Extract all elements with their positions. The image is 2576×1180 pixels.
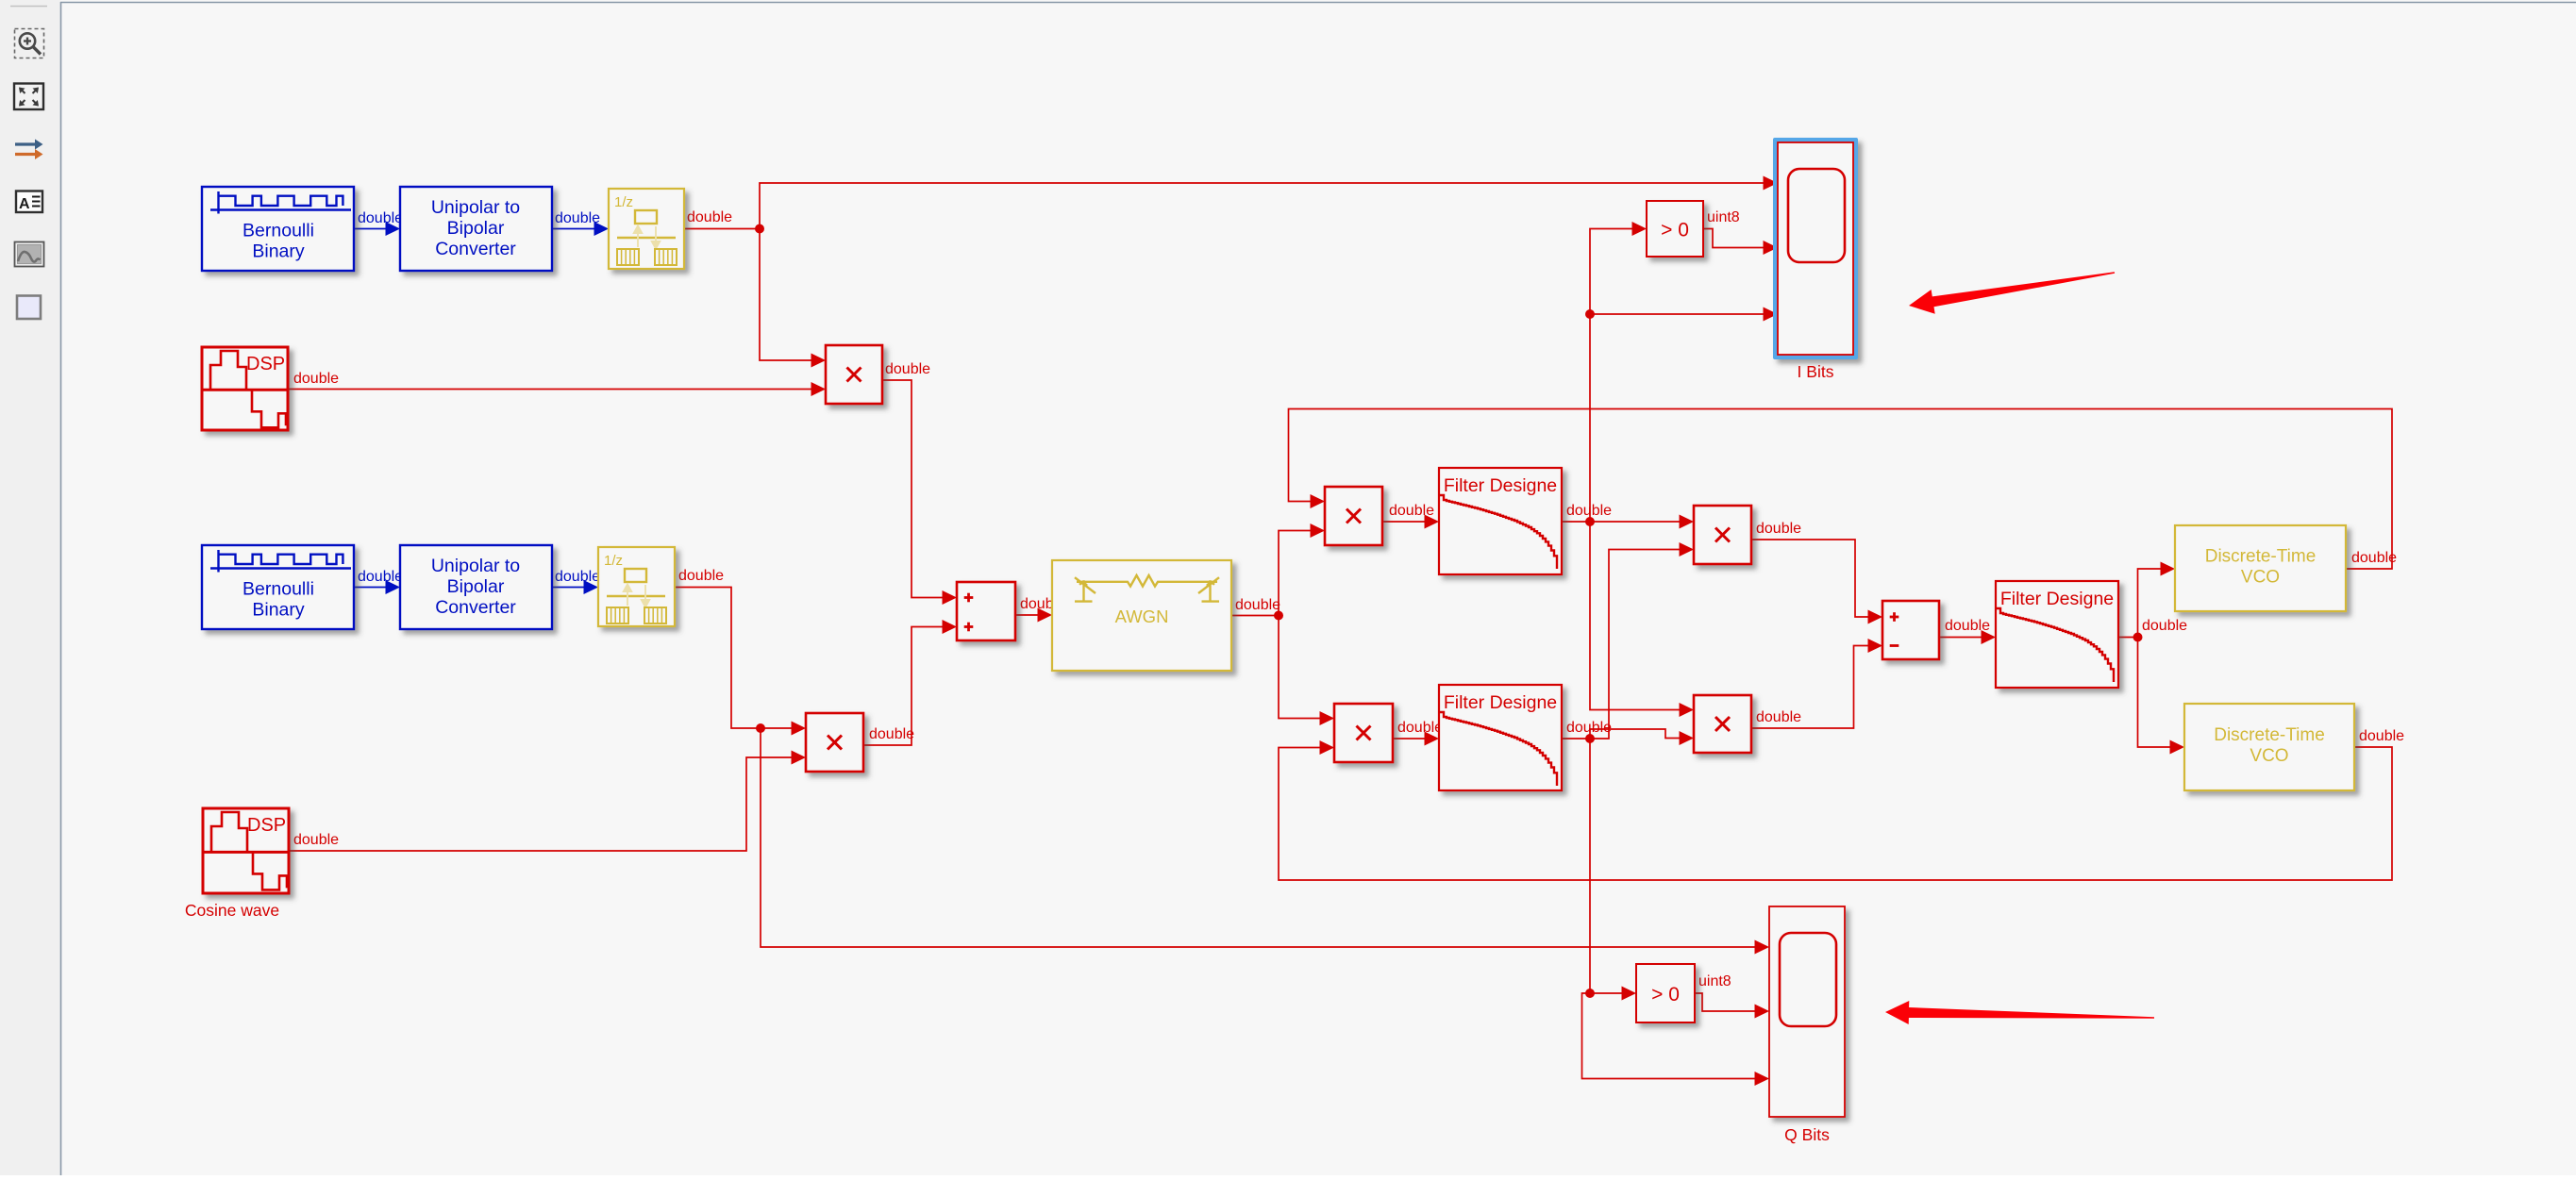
block: Unit Delay 1 (1/z) [609,189,684,269]
svg-text:Filter Designe: Filter Designe [1444,692,1557,713]
block: Product 5 (multiplier) [1694,506,1751,564]
svg-text:> 0: > 0 [1651,984,1680,1005]
svg-text:double: double [1756,521,1801,537]
svg-text:DSP: DSP [246,354,285,374]
svg-text:double: double [358,569,403,585]
svg-text:Binary: Binary [252,241,305,262]
svg-text:Discrete-Time: Discrete-Time [2205,547,2317,567]
wire: Unipolar converter 2 to Unit Delay 2 [552,587,585,589]
svg-text:double: double [358,210,403,226]
block: DSP Sine (DSP sine source) [202,347,288,430]
svg-text:Cosine wave: Cosine wave [185,901,279,920]
toolbar icon: fit to view [14,84,43,110]
block: Filter Designer 2 (lowpass) [1439,685,1562,790]
svg-text:Q Bits: Q Bits [1784,1125,1830,1144]
wire: Product 3 output to Filter Designer 1 [1382,521,1426,523]
svg-text:Filter Designe: Filter Designe [1444,475,1557,496]
wire: Bernoulli Binary 2 to Unipolar converter 2 [355,587,387,589]
svg-text:1/z: 1/z [604,553,623,569]
svg-text:double: double [1945,618,1990,634]
wire: Filter Designer 3 output to junction [2118,637,2138,639]
block: Product 2 (multiplier) [806,713,863,772]
block: Unipolar to Bipolar Converter 1 [400,187,552,271]
svg-text:Bipolar: Bipolar [447,576,505,597]
wire: junction down to Product 4 input 1 [1279,616,1321,719]
wire: Cosine wave source to Product 2 input 2 [289,757,793,851]
svg-text:VCO: VCO [2250,746,2288,766]
svg-text:uint8: uint8 [1698,973,1731,989]
wire: I-branch vertical down to Product 6 input 1 [1590,522,1681,710]
svg-text:DSP: DSP [247,815,286,836]
svg-text:double: double [1397,720,1443,736]
block: Bernoulli Binary generator 1 [202,187,354,271]
block: Product 6 (multiplier) [1694,695,1751,753]
svg-text:double: double [1566,720,1612,736]
block: Discrete-Time VCO 2 [2184,704,2354,790]
node: Unit Delay 2 output junction [756,723,765,733]
node: AWGN output junction [1274,611,1283,621]
node: Filter 2 output junction [1585,734,1595,743]
svg-text:Bernoulli: Bernoulli [243,579,314,600]
svg-text:uint8: uint8 [1707,209,1740,225]
annotation: red arrow pointing at I Bits scope [1909,272,2115,313]
toolbar icon: annotation A [16,191,42,213]
svg-text:double: double [2142,618,2187,634]
block: AWGN Channel [1052,560,1231,671]
wire: Add block output to AWGN channel [1015,614,1039,616]
svg-text:double: double [1566,503,1612,519]
wire: junction to Product 5 input 2 [1590,550,1681,740]
wire: junction down to comparator 2 [1590,739,1623,993]
wire: Unit Delay 1 output to junction [684,228,760,230]
toolbar icon: image [15,242,44,267]
node: Unit Delay 1 output junction [755,224,764,234]
wire: Product 4 output to Filter Designer 2 [1393,738,1426,740]
svg-text:double: double [1389,503,1434,519]
wire: junction down to Discrete-Time VCO 2 [2138,638,2172,748]
block: Unipolar to Bipolar Converter 2 [400,545,552,629]
svg-text:Converter: Converter [435,597,516,618]
block: Cosine wave (DSP sine source) [203,808,289,893]
wire: Product 1 output to Add block input 1 [882,380,944,598]
svg-text:Converter: Converter [435,239,516,259]
svg-text:double: double [1756,709,1801,725]
wire: AWGN output to junction [1231,615,1279,617]
block: Q Bits scope [1769,906,1845,1117]
svg-text:Filter Designe: Filter Designe [2000,589,2114,609]
block: Sum 2 (+ -) [1882,601,1939,659]
wire: branch to Q Bits scope input 3 [1582,993,1757,1079]
svg-text:double: double [293,371,339,387]
svg-text:1/z: 1/z [614,194,633,210]
block: Unit Delay 2 (1/z) [598,547,675,626]
svg-text:double: double [555,210,600,226]
svg-text:Unipolar to: Unipolar to [431,556,520,576]
svg-text:double: double [869,726,914,742]
block: Compare To Zero 2 [1636,964,1695,1022]
block: Product 1 (multiplier) [826,345,882,404]
wire: Filter Designer 1 output to Product 5 input 1 [1562,521,1681,523]
node: I decision branch [1585,309,1595,319]
wire: junction up to I Bits scope input 1 [760,183,1765,229]
block: Product 4 (multiplier) [1334,704,1393,762]
wire: Add-Sub output to Filter Designer 3 [1939,637,1982,639]
svg-text:double: double [555,569,600,585]
svg-text:double: double [1235,597,1280,613]
block: Filter Designer 3 (lowpass) [1996,581,2118,688]
svg-text:VCO: VCO [2241,568,2280,588]
node: Filter 1 output junction [1585,517,1595,526]
wire: junction to Product 6 input 2 [1590,729,1681,739]
svg-text:double: double [2359,728,2404,744]
block: Filter Designer 1 (lowpass) [1439,468,1562,574]
wire: Unit Delay 2 output to Product 2 input 1 [675,588,793,729]
block: Compare To Zero 1 [1647,201,1703,257]
toolbar icon: blank block [17,296,41,320]
svg-text:> 0: > 0 [1661,220,1689,241]
svg-text:double: double [293,832,339,848]
svg-text:Bipolar: Bipolar [447,218,505,239]
svg-text:Discrete-Time: Discrete-Time [2214,725,2325,745]
svg-text:I Bits: I Bits [1798,362,1834,381]
svg-text:A: A [19,196,30,212]
svg-text:Binary: Binary [252,600,305,621]
block: Product 3 (multiplier) [1325,487,1382,545]
wire: comparator 2 output to Q Bits scope input 2 [1695,993,1756,1011]
svg-text:double: double [687,209,732,225]
wire: DSP Sine source to Product 1 input 2 [288,389,812,391]
block: Sum 1 (+ +) [957,582,1015,640]
node: Q decision branch [1585,989,1595,998]
svg-text:double: double [885,361,930,377]
svg-text:AWGN: AWGN [1115,607,1169,626]
toolbar icon: zoom to region [15,29,44,58]
toolbar panel [0,0,60,1175]
wire: VCO 2 feedback loop to Product 4 input 2 [1279,747,2392,880]
wire: junction down to Q Bits scope input 1 [761,728,1756,947]
block: Discrete-Time VCO 1 [2175,525,2346,611]
svg-text:Bernoulli: Bernoulli [243,221,314,241]
wire: Product 6 output to Add-Sub minus input [1751,646,1869,729]
wire: VCO 1 feedback loop to Product 3 input 1 [1289,409,2393,570]
wire: branch to I Bits scope input 3 [1590,313,1765,315]
wire: Product 2 output to Add block input 2 [863,627,944,746]
wire: Filter Designer 2 output to junction [1562,738,1590,740]
block: I Bits scope [1773,138,1858,359]
wire: comparator 1 output to I Bits scope input 2 [1703,229,1765,248]
wire: Product 5 output to Add-Sub plus input [1751,540,1869,617]
svg-text:double: double [2351,550,2397,566]
wire: Bernoulli Binary 1 to Unipolar converter 1 [355,228,387,230]
annotation: red arrow pointing at Q Bits scope [1885,1001,2154,1024]
wire: junction down to Product 1 input 1 [760,229,812,361]
svg-text:double: double [678,568,724,584]
svg-text:Unipolar to: Unipolar to [431,197,520,218]
wire: junction up to Product 3 input 2 [1279,531,1312,616]
wire: I-branch vertical up to comparator 1 [1590,229,1633,523]
node: Filter 3 output junction [2133,633,2143,642]
wire: junction up to Discrete-Time VCO 1 [2138,569,2163,638]
toolbar icon: compare arrows [15,140,43,160]
block: Bernoulli Binary generator 2 [202,545,354,629]
wire: Unipolar converter 1 to Unit Delay 1 [552,228,595,230]
